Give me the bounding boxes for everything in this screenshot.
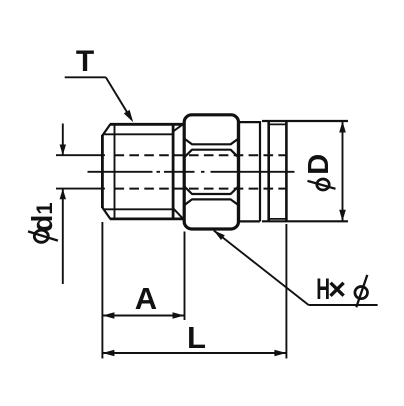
label H x phi: phi symbol (circle+slash) xyxy=(355,275,368,307)
svg-text:L: L xyxy=(187,320,206,355)
L arrow right xyxy=(274,350,286,357)
thread chamfer inner vertical xyxy=(114,124,116,219)
thread chamfer line top xyxy=(103,133,173,135)
L dimension right extension line xyxy=(285,224,287,359)
T leader arrowhead xyxy=(124,110,133,122)
A dimension right extension line xyxy=(184,232,186,321)
phi d1 extension line upper xyxy=(56,154,105,156)
svg-text:×: × xyxy=(328,272,346,307)
A arrow right xyxy=(173,312,185,319)
T label leader underline xyxy=(65,76,106,78)
svg-text:A: A xyxy=(135,281,157,316)
phi d1 dimension line lower segment xyxy=(62,189,64,284)
hex facet edge: bottom facet upper boundary xyxy=(185,199,238,204)
T leader diagonal xyxy=(106,77,132,119)
cap left face xyxy=(259,121,261,222)
thread chamfer corner top-left xyxy=(102,124,110,135)
svg-text:T: T xyxy=(76,45,94,78)
A dimension line xyxy=(102,315,184,317)
hex nut outline xyxy=(184,115,238,229)
release collar right edge xyxy=(285,121,288,221)
phi D dimension line xyxy=(342,121,344,221)
HxPhi leader diagonal xyxy=(214,231,309,306)
svg-text:D: D xyxy=(303,154,335,175)
phi D arrow down xyxy=(339,210,346,222)
cone edge thread-to-hex bottom xyxy=(173,208,184,220)
phi d1 dimension line upper segment xyxy=(62,124,64,156)
phi d1 arrow down xyxy=(60,145,66,156)
cap bottom edge + phiD extension bottom xyxy=(262,220,348,222)
hex facet edge: middle facet upper boundary xyxy=(185,150,238,157)
release collar top inner edge xyxy=(269,123,287,125)
cone edge thread-to-hex top xyxy=(173,123,184,131)
hidden thread line lower xyxy=(115,188,287,190)
thread chamfer corner bottom-left xyxy=(102,208,110,219)
thread chamfer line bottom xyxy=(103,208,173,210)
L dimension line xyxy=(102,352,286,354)
A arrow left xyxy=(102,312,114,319)
hidden thread line upper xyxy=(115,154,287,156)
hex facet edge: top facet lower boundary xyxy=(185,139,238,144)
body neck top edge xyxy=(239,121,260,123)
label phi d1: phi symbol (circle+slash, rotated orientation) xyxy=(28,230,58,242)
centerline xyxy=(88,171,295,173)
body neck bottom edge xyxy=(239,220,260,222)
phi d1 extension line lower xyxy=(56,188,105,190)
cap top edge + phiD extension top xyxy=(262,120,348,122)
HxPhi leader arrowhead at hex xyxy=(214,230,225,240)
A dimension left extension line xyxy=(101,222,103,359)
svg-text:d1: d1 xyxy=(27,202,59,232)
phi D arrow up xyxy=(339,121,346,133)
phi d1 arrow up xyxy=(60,189,66,200)
HxPhi leader underline xyxy=(309,304,378,306)
thread body outline xyxy=(102,124,184,219)
release collar left edge xyxy=(267,121,270,221)
L arrow left xyxy=(102,350,114,357)
release collar bottom inner edge xyxy=(269,218,287,220)
hex right edge xyxy=(237,122,240,222)
hex facet edge: middle facet lower boundary xyxy=(185,187,238,194)
label phi D: phi symbol (circle+slash, rotated orientation) xyxy=(308,179,336,190)
